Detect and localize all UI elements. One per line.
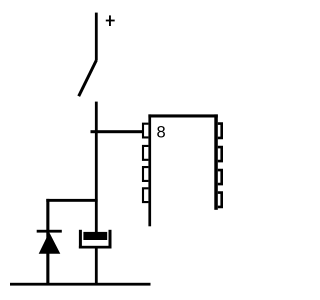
- IC U1 left edge: [148, 114, 151, 226]
- wire: branch horizontal to diode: [46, 199, 97, 202]
- wire: horizontal to IC pin 8: [91, 130, 145, 133]
- wire: bottom ground rail: [10, 283, 151, 286]
- IC U1 pin 1 (right, top): [218, 124, 222, 138]
- IC U1 right edge: [214, 114, 218, 209]
- wire: vertical below capacitor to ground rail: [95, 248, 98, 284]
- IC U1 pin 5 (left): [143, 188, 148, 202]
- diode D1 cathode bar: [37, 230, 62, 233]
- wire: switch upper terminal: [95, 13, 98, 61]
- svg-text:8: 8: [157, 124, 166, 142]
- switch S1 lever (open): [79, 60, 97, 96]
- node + (positive supply marker): [106, 15, 115, 26]
- IC U1 pin 7 (left): [143, 146, 148, 160]
- IC U1 pin 6 (left): [143, 167, 148, 181]
- wire: main vertical from switch lower terminal down to capacitor: [95, 102, 98, 233]
- wire: diode branch vertical: [46, 199, 49, 285]
- IC U1 pin 2 (right): [218, 147, 222, 161]
- diode D1 anode triangle: [39, 232, 61, 254]
- IC U1 pin 3 (right): [218, 170, 222, 184]
- IC U1 pin 8 (left, top): [143, 124, 148, 138]
- IC U1 pin 4 (right): [218, 193, 222, 207]
- capacitor C1 case (open-top U): [79, 230, 112, 249]
- IC U1 top edge: [148, 114, 217, 117]
- capacitor C1 top plate (filled): [83, 232, 107, 240]
